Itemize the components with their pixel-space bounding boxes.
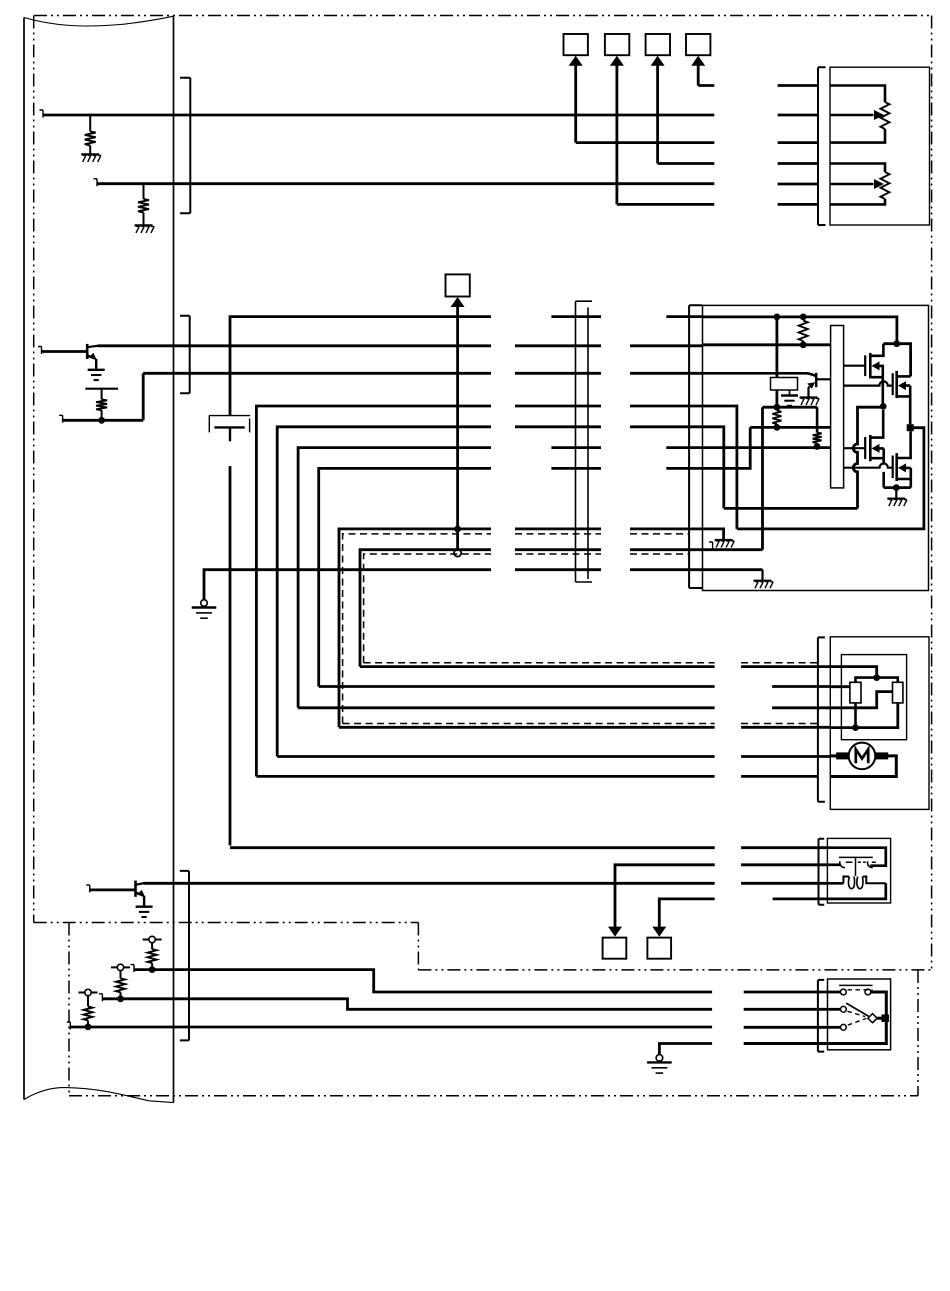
MOSFET M4 source arrow <box>898 463 906 472</box>
IC block (driver) <box>831 326 844 488</box>
resistor R5 <box>772 411 781 425</box>
shield S2 bottom row right <box>741 665 830 668</box>
switch wire 2 with step <box>102 999 712 1010</box>
pull-up resistor R7 upper lead <box>151 943 153 949</box>
harness right segment T1 (stub) <box>666 315 702 318</box>
arrow into CS5 <box>451 297 465 307</box>
junction dot R6/L3 row <box>814 443 821 450</box>
shield cable S2 wire corner <box>360 550 491 667</box>
shield plate resistor lead <box>101 389 103 400</box>
switch dashed throw from 3 <box>848 1018 866 1025</box>
junction dot node A <box>880 403 887 410</box>
wire W2 (ECU sensor line 2) <box>97 182 714 185</box>
harness middle segment S2 shield (dashed) <box>515 553 601 555</box>
switch stub 2 <box>828 1008 841 1011</box>
lamp row2 corner <box>615 865 715 928</box>
driver block connector bracket <box>689 305 702 588</box>
pull-up resistor R9 junction dot <box>85 1024 92 1031</box>
node-A link row 508 <box>724 507 858 510</box>
harness middle segment L2 <box>515 425 601 428</box>
harness right segment T2 <box>630 344 703 347</box>
pull-up resistor R8 supply tick bar <box>111 966 130 968</box>
ground stem GND row <box>761 570 763 581</box>
MOSFET M2 gate bar <box>892 373 894 395</box>
MOSFET M2 drain <box>897 375 911 378</box>
pull-up resistor R7 supply tick bar <box>143 939 162 941</box>
lamp block feed wire <box>827 848 885 866</box>
switch block outline <box>828 979 891 1050</box>
wire end hook, lower wire <box>59 415 63 423</box>
ECU control-unit block outline (torn edges) <box>24 16 174 1102</box>
harness middle segment S2 <box>515 548 601 551</box>
harness stub y=163.5 to sensor block <box>778 162 818 165</box>
motor row W right <box>741 755 830 758</box>
transistor Q1 base wire <box>42 350 88 353</box>
vertical wire from CS3 <box>656 64 659 164</box>
MOSFET M2 channel bar <box>895 371 898 398</box>
lamp block wire3 to coils <box>827 882 843 885</box>
wire end hook inside block <box>709 542 713 550</box>
harness middle segment T3 <box>515 372 601 375</box>
row L2 inside block to corner <box>703 427 724 509</box>
wire from CS2 horizontal run <box>617 203 714 206</box>
position sensor resistor Ra <box>850 682 861 703</box>
MOSFET M2 source stubs <box>897 386 911 425</box>
wire S2 inside motor block <box>830 667 876 678</box>
wire end hook, switch wire 3 <box>67 1022 71 1030</box>
lamp row2 right <box>741 863 827 866</box>
pull-up resistor R9 supply circle <box>85 989 91 995</box>
potentiometer P2 wiper arrow <box>874 179 884 189</box>
motor M circle <box>849 743 876 770</box>
MOSFET M1 gate bar <box>864 355 866 376</box>
harness middle segment T2 <box>515 344 601 347</box>
lamp block wire4 <box>827 883 885 899</box>
shield cable S2 shield dashed corner <box>364 554 491 663</box>
harness right segment GND wire <box>630 568 703 571</box>
ground G6 (hatched) at Q3 <box>800 398 820 406</box>
in-line connector CN1 <box>576 301 593 582</box>
ground wire corner <box>204 570 491 600</box>
ground G3 (bars) at Q1 emitter <box>88 370 105 380</box>
ECU connector bracket B3 <box>180 871 189 1041</box>
shield S2 bottom row left <box>360 665 715 668</box>
potentiometer P1 wiper wire <box>830 114 874 117</box>
harness middle segment L1 <box>515 405 601 408</box>
resistor R1 lead <box>89 115 91 131</box>
transistor Q1 emitter lead <box>95 359 97 370</box>
resistor R2 lower lead <box>143 212 145 225</box>
harness middle segment GND wire <box>515 568 601 571</box>
pull-up resistor R9 supply tick bar <box>79 992 98 994</box>
coil rail left <box>843 877 848 884</box>
transistor Q2 collector <box>136 883 145 885</box>
transistor Q1 base bar <box>86 344 89 359</box>
switch common wire right <box>744 1042 828 1045</box>
switch wire 1 right <box>744 991 828 994</box>
contact centre stem <box>855 857 857 876</box>
junction dot T1/V776 <box>774 314 781 321</box>
joint symbol outer shell <box>209 416 250 433</box>
transistor Q3 emitter arrow <box>807 382 815 389</box>
ground stem sources <box>895 488 897 499</box>
vertical wire from CS2 <box>616 64 619 205</box>
shield S1 bottom row left <box>339 726 715 729</box>
coil rail right <box>863 877 886 884</box>
driver block outline <box>703 305 929 590</box>
wire from CS4 horizontal run <box>698 84 714 87</box>
potentiometer P2 wiper wire <box>830 183 874 186</box>
junction dot T1/R4 <box>800 314 807 321</box>
connector square CS6 <box>603 938 627 959</box>
wire row M2 inside <box>830 692 892 708</box>
vertical wire from CS4 <box>697 64 700 86</box>
wire L1 corner <box>256 406 491 776</box>
resistor R2 lead <box>143 184 145 199</box>
ECU connector bracket B2 <box>180 316 190 394</box>
wire W4 lower-left <box>63 419 144 422</box>
lamp row4 right <box>773 898 828 901</box>
harness middle segment S1 shield (dashed) <box>515 533 601 535</box>
harness right segment S2 <box>630 548 703 551</box>
connector square CS1 <box>564 34 588 55</box>
harness boundary dash-dot box 1 right edge <box>931 16 933 971</box>
MOSFET M3 source arrow <box>872 444 880 453</box>
MOSFET M4 gate wire w/ hump <box>844 464 893 468</box>
wire end hook, wire W1 <box>40 110 44 118</box>
harness boundary dash-dot box 1 bottom edge <box>418 969 931 971</box>
pull-up resistor R8 supply circle <box>117 964 123 970</box>
pull-up resistor R8 lower lead <box>120 992 122 999</box>
harness boundary dash-dot box 2 right edge <box>917 970 919 1096</box>
pull-up resistor R7 lower lead <box>151 963 153 970</box>
pull-up resistor R9 lower lead <box>87 1020 89 1027</box>
switch top bar <box>839 984 872 986</box>
vertical V776 upper <box>776 317 779 378</box>
relay box ground stem <box>789 390 791 396</box>
wire W1 (ECU sensor line 1) <box>43 114 714 117</box>
coil L1 glyph <box>848 877 854 889</box>
contact dashes <box>846 861 876 863</box>
wire T2 inside block <box>703 343 831 346</box>
junction dot S1/Ra bottom <box>852 724 859 731</box>
wire end hook, switch wire 2 <box>99 994 103 1002</box>
switch common square dot <box>881 1014 889 1022</box>
resistor R5 leads <box>776 407 778 427</box>
source ground row <box>884 486 911 489</box>
motor row W left <box>277 755 714 758</box>
wire L3 corner <box>298 448 491 708</box>
motor block connector bracket <box>818 637 825 801</box>
harness stub y=204.4 to sensor block <box>778 203 818 206</box>
transistor Q1 collector <box>87 346 97 347</box>
harness boundary dash-dot box 2 bottom edge <box>69 1095 918 1097</box>
harness stub y=115 to sensor block <box>778 114 818 117</box>
motor return loop <box>830 756 896 777</box>
switch stub 1 <box>828 991 841 994</box>
lamp block wire2 to left contact <box>827 863 840 866</box>
resistor R4 (pull-up) <box>799 321 808 345</box>
junction dot V776/row407 <box>774 404 781 411</box>
contact top bar <box>839 856 873 858</box>
resistor R1 <box>85 131 96 145</box>
lamp row3 (Q2 collector) wire <box>144 882 715 885</box>
ground G11 (circle type) <box>647 1055 672 1074</box>
wire T1 inside block <box>703 317 897 344</box>
connector square CS7 <box>647 938 671 959</box>
junction dot R4/T2 <box>800 341 807 348</box>
MOSFET M4 source stubs <box>897 468 911 488</box>
row S1 inside block to ground <box>703 529 724 540</box>
harness boundary dash-dot box 1 left edge <box>33 16 35 923</box>
switch dashed link 1-4 <box>848 989 873 991</box>
potentiometer P1 element <box>881 102 890 129</box>
pull-up resistor R7 junction dot <box>149 966 156 973</box>
motor M terminals <box>836 752 888 759</box>
MOSFET M2 source arrow <box>898 381 906 390</box>
harness middle segment S1 <box>515 528 601 531</box>
lamp block connector bracket <box>819 839 825 905</box>
harness stub y=184 to sensor block <box>778 183 818 186</box>
connector square CS2 <box>605 34 629 55</box>
wire T3 riser <box>142 373 145 420</box>
Ra-Rb top link <box>856 678 898 683</box>
lamp row4 corner <box>659 899 714 928</box>
potentiometer P2 bottom wire <box>830 199 885 204</box>
pull-up resistor R8 junction dot <box>117 995 124 1002</box>
wire row M1 inside <box>830 685 850 688</box>
sensor inner box <box>841 655 906 740</box>
ground G10 (bars) at Q2 <box>136 907 153 917</box>
row L3 inside block <box>703 446 831 449</box>
harness boundary dash-dot box 1 bottom-left segment <box>34 922 419 924</box>
wire from CS3 horizontal run <box>658 162 715 165</box>
lamp row1 right <box>741 846 827 849</box>
connector square CS5 <box>446 274 470 296</box>
harness right segment S1 <box>630 528 703 531</box>
sensor block outline <box>830 67 930 225</box>
MOSFET M1 channel bar <box>869 353 872 379</box>
wire T3 (to bracket B2) <box>143 372 491 375</box>
pull-up resistor R9 upper lead <box>87 996 89 1007</box>
wire S1 inside motor block <box>830 703 898 728</box>
coil L2 glyph <box>857 877 863 889</box>
potentiometer P2 top wire <box>830 164 885 173</box>
MOSFET M3 channel bar <box>869 435 872 461</box>
switch wire 1 with step <box>134 970 712 992</box>
junction dot sources <box>893 484 900 491</box>
wire M1drain-M2drain <box>883 344 910 377</box>
node-B riser <box>737 428 924 529</box>
pull-up resistor R8 upper lead <box>120 971 122 979</box>
switch contact circle 2 <box>841 1006 847 1012</box>
motor loop row right <box>741 775 818 778</box>
harness middle segment L3 (stub) <box>551 446 601 449</box>
shield S2 bottom dashed left <box>364 662 715 664</box>
transistor Q3 base bar <box>815 373 817 387</box>
row GND inside block <box>703 568 763 571</box>
motor M letter <box>856 749 868 763</box>
junction dot S2/Ra-Rb top <box>873 674 880 681</box>
wire T1 corner at x=230 <box>230 317 491 416</box>
motor loop row left <box>256 775 714 778</box>
transistor Q2 base bar <box>134 881 137 897</box>
wire row W inside <box>830 754 837 757</box>
transistor Q2 emitter <box>136 890 145 897</box>
wire T2 from Q1 collector <box>98 344 492 347</box>
wire L4 corner <box>319 468 491 686</box>
shield drain open circle on S2 <box>454 549 461 556</box>
switch dashed throw from 2 <box>847 1011 865 1016</box>
resistor R2 <box>138 199 149 212</box>
potentiometer P1 wiper arrow <box>874 110 884 120</box>
harness right segment S2 shield (dashed) <box>630 553 689 555</box>
MOSFET M4 gate bar <box>892 456 894 479</box>
motor row M2 right <box>772 706 830 709</box>
junction dot R5/row427 <box>774 424 781 431</box>
node-A riser with crossover humps <box>853 407 883 508</box>
MOSFET M1 source stubs <box>870 366 883 407</box>
wire end hook, Q1 base wire <box>38 347 42 355</box>
junction dot V457/shield wire S1 <box>454 526 461 533</box>
ground G5 (bars) under relay box <box>781 396 798 406</box>
lamp row3 right <box>741 882 827 885</box>
MOSFET M1 source arrow <box>872 361 880 370</box>
switch block connector bracket <box>818 980 824 1052</box>
ECU connector bracket B1 <box>180 78 190 213</box>
switch contact circle 3 <box>841 1024 847 1030</box>
MOSFET M1 drain <box>870 344 883 356</box>
left contact hook <box>840 861 845 867</box>
pull-up resistor R8 element <box>116 978 125 992</box>
MOSFET M3 source stubs <box>870 448 883 487</box>
harness right segment L2 <box>630 425 703 428</box>
vertical V230 lower run <box>229 466 232 845</box>
resistor R1 lower lead <box>89 145 91 154</box>
wire from CS1 horizontal run <box>576 141 715 144</box>
shield S1 bottom dashed left <box>343 723 715 725</box>
junction square node B <box>907 424 914 431</box>
harness right segment T3 <box>630 372 703 375</box>
motor row M1 right <box>772 685 830 688</box>
junction dot T1/drains <box>893 340 900 347</box>
motor row M1 left <box>319 685 715 688</box>
switch wiper arm <box>846 1003 869 1016</box>
harness middle segment L4 (stub) <box>551 467 601 470</box>
sensor block connector bracket <box>818 67 826 225</box>
pull-up resistor R7 element <box>148 949 157 963</box>
potentiometer P1 top wire <box>830 86 885 103</box>
switch wire 3 <box>70 1026 712 1029</box>
arrow into CS4 <box>691 56 705 66</box>
row 407 (S2 riser to R5/R6) <box>763 406 818 409</box>
junction dot W4/shield-plate resistor <box>98 417 105 424</box>
MOSFET M2 gate wire w/ hump <box>844 381 893 385</box>
ground G7 (hatched) MOSFET sources <box>887 499 907 507</box>
vertical V776 lower <box>776 390 779 407</box>
harness stub y=85.5 to sensor block <box>778 84 818 87</box>
switch common path <box>828 992 887 1044</box>
shield cable S1 shield dashed corner <box>343 534 491 724</box>
harness boundary dash-dot box 2 left edge <box>68 923 70 1096</box>
motor block outline <box>830 637 929 810</box>
harness right segment L4 (stub) <box>666 467 702 470</box>
transistor Q2 emitter lead <box>143 896 145 907</box>
wire T3 inside block <box>703 373 817 376</box>
harness boundary dash-dot jog vertical <box>417 923 419 970</box>
MOSFET M3 gate bar <box>864 437 866 459</box>
harness stub y=142.6 to sensor block <box>778 141 818 144</box>
row 427 from L4 riser to IC <box>750 426 830 429</box>
position sensor resistor Rb <box>893 682 903 703</box>
shield plate resistor lower lead <box>101 410 103 420</box>
harness right segment L1 <box>630 405 703 408</box>
harness boundary dash-dot box 1 top edge <box>34 15 932 17</box>
MOSFET M3 gate wire <box>844 447 866 449</box>
row L1 inside block to corner <box>703 406 737 529</box>
harness right segment S1 shield (dashed) <box>630 533 689 535</box>
MOSFET M1 gate wire <box>844 365 866 367</box>
transistor Q2 base wire <box>90 889 136 892</box>
switch wire 2 right <box>744 1008 828 1011</box>
wire end hook, Q2 base <box>86 885 90 893</box>
transistor Q1 emitter <box>87 353 96 360</box>
switch common wire <box>659 1044 712 1058</box>
ground G2 (hatched) <box>135 225 155 233</box>
shield plate symbol top line <box>85 388 118 390</box>
lamp row1 left <box>230 846 715 849</box>
Ra bottom lead <box>854 703 857 728</box>
switch stub 3 <box>828 1026 841 1029</box>
shield S1 bottom dashed right <box>741 723 818 725</box>
arrow into CS7 <box>652 927 666 937</box>
shield S2 bottom dashed right <box>741 662 818 664</box>
connector square CS3 <box>646 34 670 55</box>
relay coil box <box>771 378 798 391</box>
wire end hook, wire W2 <box>94 179 98 187</box>
wire end hook, switch wire 1 <box>131 965 135 973</box>
arrow into CS3 <box>651 56 665 66</box>
MOSFET M3 drain <box>870 410 883 438</box>
switch common wire segment <box>877 1017 886 1020</box>
joint symbol inner plate <box>214 426 244 428</box>
transistor Q3 emitter lead <box>809 387 810 398</box>
wire L2 corner <box>277 427 491 757</box>
joint symbol stem <box>229 427 231 441</box>
switch wiper diamond <box>868 1014 877 1023</box>
MOSFET M4 channel bar <box>895 453 898 481</box>
pull-up resistor R9 element <box>84 1006 93 1020</box>
S2 riser V762 <box>761 407 764 550</box>
ground G4 (circle type) <box>192 600 217 619</box>
shield cable S1 wire corner <box>339 529 491 727</box>
vertical wire from CS1 <box>574 64 577 143</box>
transistor Q3 base lead to IC <box>816 378 830 380</box>
riser V817 and resistor R6 <box>813 407 822 446</box>
pull-up resistor R7 supply circle <box>149 936 155 942</box>
arrow into CS6 <box>608 927 622 937</box>
ground G9 (hatched) GND row <box>754 581 774 589</box>
vertical wire V457 <box>456 305 459 554</box>
potentiometer P2 element <box>881 172 890 199</box>
switch contact circle 4 <box>865 989 871 995</box>
arrow into CS2 <box>610 56 624 66</box>
arrow into CS1 <box>569 56 583 66</box>
right contact hook <box>867 861 872 867</box>
MOSFET M4 drain <box>897 431 911 458</box>
row L4 inside block to corner <box>703 427 751 468</box>
harness middle segment T1 (stub) <box>551 315 601 318</box>
